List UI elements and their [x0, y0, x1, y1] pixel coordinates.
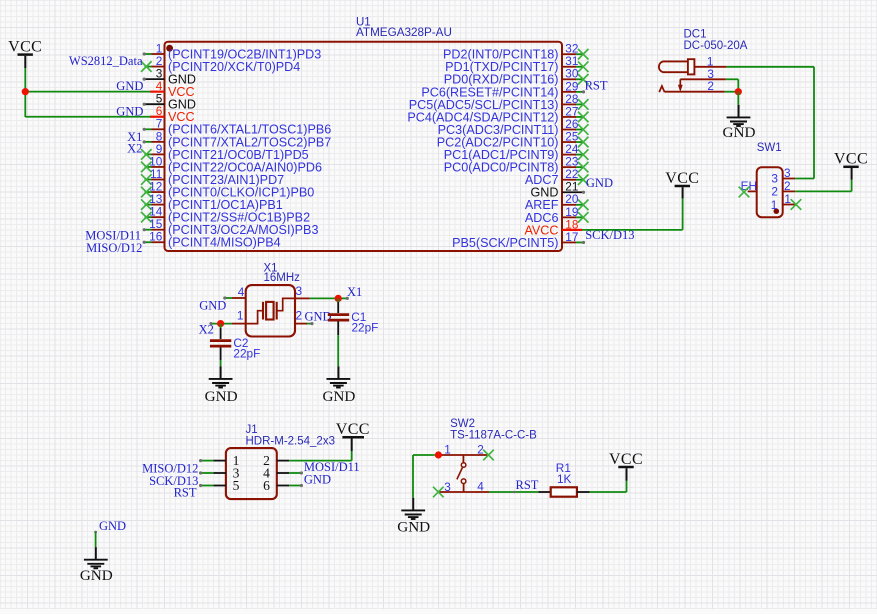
capacitor C2 [210, 341, 231, 347]
svg-text:1: 1 [444, 443, 451, 457]
net label MISO/D12 (pin 16) [86, 241, 142, 255]
U1 pin 9 ((PCINT21/OC0B/T1)PD5) [141, 142, 309, 162]
svg-text:SW1: SW1 [757, 142, 782, 154]
U1 pin 30 (PD0(RXD/PCINT16)) [444, 67, 589, 87]
U1 pin 13 ((PCINT1/OC1A)PB1) [141, 192, 283, 212]
svg-text:3: 3 [296, 284, 303, 298]
U1 pin 11 ((PCINT23/AIN1)PD7) [141, 167, 284, 187]
net label SCK/D13 (J1) [149, 474, 198, 488]
U1 pin 6 (VCC) [150, 104, 195, 124]
wire DC1 pin1 to SW1 [726, 67, 814, 179]
svg-text:GND: GND [397, 519, 430, 536]
SW2 pin 4 [477, 480, 484, 494]
J1 pin 6 [263, 478, 303, 493]
svg-text:(PCINT4/MISO)PB4: (PCINT4/MISO)PB4 [168, 236, 281, 250]
svg-text:1K: 1K [557, 472, 572, 486]
DC1 pin 3 [680, 67, 726, 81]
U1 pin 4 (VCC) [150, 79, 195, 99]
U1 pin 15 ((PCINT3/OC2A/MOSI)PB3) [143, 217, 319, 237]
wire VCC vertical to junction [24, 68, 26, 117]
DC1 pin 1 [694, 54, 726, 68]
switch SW2 refdes label [450, 418, 537, 442]
svg-text:RST: RST [585, 78, 608, 92]
svg-text:ATMEGA328P-AU: ATMEGA328P-AU [356, 26, 452, 39]
power VCC symbol above J1 [336, 421, 370, 451]
svg-text:22pF: 22pF [233, 346, 260, 360]
X1 pin 3 [295, 284, 310, 299]
svg-text:4: 4 [477, 480, 484, 494]
C2 value label [233, 336, 260, 361]
U1 pin 27 (PC4(ADC4/SDA/PCINT12)) [407, 104, 588, 124]
svg-text:PB5(SCK/PCINT5): PB5(SCK/PCINT5) [452, 236, 558, 250]
J1 pin 4 [263, 466, 303, 481]
wire C1 to ground [337, 322, 339, 367]
wire SW2 pin1 to ground [413, 455, 435, 498]
power VCC symbol right of SW1 [834, 151, 868, 180]
svg-text:RST: RST [516, 478, 539, 492]
crystal X1 16MHz body [246, 285, 295, 336]
svg-text:VCC: VCC [834, 151, 868, 168]
net label GND (bottom left) [99, 519, 126, 533]
svg-text:X1: X1 [347, 285, 362, 299]
U1 pin 5 (GND) [143, 92, 196, 112]
svg-text:GND: GND [586, 176, 613, 190]
X1 pin 2 [295, 309, 314, 326]
wire SW1 pin3 from DC1 [795, 178, 814, 180]
U1 pin 28 (PC5(ADC5/SCL/PCINT13)) [409, 92, 589, 112]
wire X1 pin3 to X1 net [310, 297, 349, 300]
net label X2 [199, 323, 214, 337]
U1 pin 26 (PC3(ADC3/PCINT11)) [438, 117, 589, 137]
U1 pin 2 ((PCINT20/XCK/T0)PD4) [141, 54, 300, 74]
svg-text:3: 3 [784, 166, 791, 180]
resistor R1 1K body [538, 487, 589, 496]
svg-text:SW2: SW2 [450, 418, 475, 430]
svg-text:VCC: VCC [8, 38, 42, 55]
switch SW2 TS-1187A-C-C-B body [438, 455, 489, 492]
wire C2 to ground [220, 348, 222, 367]
junction SW2 pin 1 [435, 451, 442, 458]
svg-text:16MHz: 16MHz [264, 272, 301, 284]
switch SW1 refdes label [757, 142, 782, 154]
junction X2 net [217, 320, 224, 327]
svg-text:GND: GND [322, 388, 355, 405]
power VCC symbol right of R1 [609, 451, 643, 481]
U1 pin 12 ((PCINT0/CLKO/ICP1)PB0) [141, 179, 314, 199]
net label MISO/D12 (J1) [142, 462, 198, 476]
U1 pin 16 ((PCINT4/MISO)PB4) [143, 230, 281, 250]
SW1 pin 3 [771, 166, 795, 185]
wire X1 junction down to C1 [337, 298, 339, 313]
switch SW1 body [757, 167, 783, 217]
U1 pin 18 (AVCC) [524, 217, 582, 237]
wire SW1 pin2 to VCC [795, 180, 851, 192]
net label SCK/D13 (pin 17) [585, 228, 634, 242]
net label RST (SW2) [516, 478, 539, 492]
svg-text:22pF: 22pF [352, 320, 379, 334]
SW2 pin 1 [444, 443, 451, 457]
wire DC1 pin2 to junction [725, 91, 739, 93]
svg-text:2: 2 [296, 309, 303, 323]
svg-text:3: 3 [444, 480, 451, 494]
wire GND label stub [94, 531, 97, 548]
connector J1 refdes label [246, 424, 335, 447]
svg-text:2: 2 [477, 443, 484, 457]
net label WS2812_Data [69, 54, 143, 68]
svg-text:GND: GND [723, 124, 756, 141]
ground GND (SW2) [397, 498, 430, 536]
net label X2 (pin 9) [127, 142, 142, 156]
X1 pin 4 [223, 285, 246, 300]
junction X1 net [335, 295, 342, 302]
SW2 pin 3 [433, 480, 451, 498]
ground GND (C1) [322, 366, 355, 405]
svg-text:16: 16 [149, 230, 163, 244]
svg-text:X2: X2 [127, 142, 142, 156]
resistor R1 refdes label [556, 461, 572, 486]
svg-text:4: 4 [238, 285, 245, 299]
U1 pin 14 ((PCINT2/SS#/OC1B)PB2) [141, 205, 310, 225]
wire SW2 pin4 to R1 [489, 491, 538, 494]
U1 pin 31 (PD1(TXD/PCINT17)) [445, 54, 588, 74]
net label MOSI/D11 (pin 15) [85, 229, 141, 243]
net label GND (pin 21) [586, 176, 613, 190]
X1 pin 1 [232, 309, 246, 324]
U1 pin 32 (PD2(INT0/PCINT18)) [443, 42, 588, 62]
svg-text:DC1: DC1 [684, 29, 707, 41]
svg-text:RST: RST [174, 485, 197, 499]
wire DC1 pin3 corner [726, 79, 739, 91]
net label GND (X1 pin 4) [199, 298, 226, 312]
svg-text:1: 1 [784, 192, 791, 206]
U1 pin 21 (GND) [531, 180, 586, 200]
J1 pin 2 [263, 453, 352, 468]
wire X2 junction down to C2 [220, 324, 222, 339]
svg-text:GND: GND [80, 567, 113, 584]
op-amp U1 ATMEGA328P-AU body [165, 42, 563, 251]
J1 pin 5 [199, 478, 240, 493]
wire X1 pin1 to X2 net [209, 322, 232, 325]
svg-text:6: 6 [263, 478, 270, 493]
U1 pin 25 (PC2(ADC2/PCINT10)) [437, 129, 589, 149]
connector J1 HDR-M-2.54_2x3 body [226, 448, 277, 499]
svg-text:WS2812_Data: WS2812_Data [69, 54, 143, 68]
svg-text:VCC: VCC [665, 170, 699, 187]
net label RST (J1) [174, 485, 197, 499]
svg-text:1: 1 [237, 309, 244, 323]
svg-text:TS-1187A-C-C-B: TS-1187A-C-C-B [450, 429, 537, 441]
ground GND (bottom left) [80, 547, 113, 584]
op-amp U1 refdes label [356, 17, 452, 40]
net label GND (X1 pin 2) [305, 309, 332, 323]
wire to U1 pin 4 [25, 91, 150, 93]
svg-text:3: 3 [771, 171, 778, 185]
connector DC1 refdes label [684, 29, 748, 52]
svg-text:DC-050-20A: DC-050-20A [684, 40, 748, 52]
svg-text:GND: GND [304, 473, 331, 487]
wire to U1 pin 6 [25, 116, 150, 118]
DC1 pin 2 [665, 79, 725, 93]
U1 pin 7 ((PCINT6/XTAL1/TOSC1)PB6) [143, 117, 332, 137]
wire to U1 pin 18 [582, 229, 683, 231]
U1 pin 1 ((PCINT19/OC2B/INT1)PD3) [143, 41, 322, 61]
svg-text:2: 2 [784, 179, 791, 193]
SW1 pin 2 [771, 179, 795, 199]
U1 pin 17 (PB5(SCK/PCINT5)) [452, 230, 585, 250]
net label GND (pin 4) [116, 79, 143, 93]
U1 pin 22 (ADC7) [525, 167, 589, 187]
U1 pin 8 ((PCINT7/XTAL2/TOSC2)PB7) [143, 129, 332, 149]
net label X1 (pin 8) [127, 130, 142, 144]
ground GND (C2) [205, 366, 238, 405]
U1 pin 29 (PC6(RESET#/PCINT14)) [421, 79, 585, 99]
C1 value label [351, 310, 378, 335]
crystal X1 refdes label [264, 262, 301, 284]
J1 pin 3 [199, 466, 240, 481]
capacitor C1 [328, 315, 349, 321]
svg-text:VCC: VCC [609, 451, 643, 468]
ground GND (DC1) [723, 105, 756, 141]
svg-text:GND: GND [99, 519, 126, 533]
svg-text:5: 5 [233, 478, 240, 493]
svg-text:2: 2 [771, 185, 778, 199]
svg-text:J1: J1 [246, 424, 258, 436]
U1 pin 24 (PC1(ADC1/PCINT9)) [444, 142, 589, 162]
wire VCC down to J1 pin 2 [351, 451, 353, 461]
svg-text:2: 2 [707, 79, 714, 93]
junction DC1 ground [735, 88, 742, 95]
net label RST (pin 29) [585, 78, 608, 92]
net label X1 [347, 285, 362, 299]
net label GND (pin 6) [116, 104, 143, 118]
svg-text:GND: GND [205, 388, 238, 405]
connector DC1 DC-050-20A body [659, 59, 695, 92]
net label GND (J1) [304, 473, 331, 487]
SW1 pin 1 [771, 192, 802, 212]
svg-text:X2: X2 [199, 323, 214, 337]
U1 pin 23 (PC0(ADC0/PCINT8)) [444, 155, 589, 175]
svg-text:GND: GND [199, 298, 226, 312]
wire junction down to GND [737, 92, 739, 105]
U1 pin 20 (AREF) [525, 192, 589, 212]
svg-text:1: 1 [771, 198, 778, 212]
U1 pin 19 (ADC6) [525, 205, 589, 225]
junction on VCC rail [22, 88, 29, 95]
U1 pin 3 (GND) [143, 67, 196, 87]
svg-text:GND: GND [305, 309, 332, 323]
power VCC symbol near pin 18 [665, 170, 699, 199]
SW1 pin EH [739, 179, 757, 197]
power VCC symbol top-left [8, 38, 42, 68]
J1 pin 1 [199, 453, 239, 468]
U1 pin 10 ((PCINT22/OC0A/AIN0)PD6) [141, 154, 322, 174]
SW2 pin 2 [477, 443, 494, 461]
svg-text:MISO/D12: MISO/D12 [86, 241, 142, 255]
svg-text:17: 17 [565, 230, 578, 244]
wire VCC down [682, 199, 684, 230]
wire R1 to VCC [590, 481, 627, 492]
svg-text:VCC: VCC [336, 421, 370, 438]
svg-text:HDR-M-2.54_2x3: HDR-M-2.54_2x3 [246, 436, 335, 448]
net label MOSI/D11 (J1) [304, 460, 360, 474]
